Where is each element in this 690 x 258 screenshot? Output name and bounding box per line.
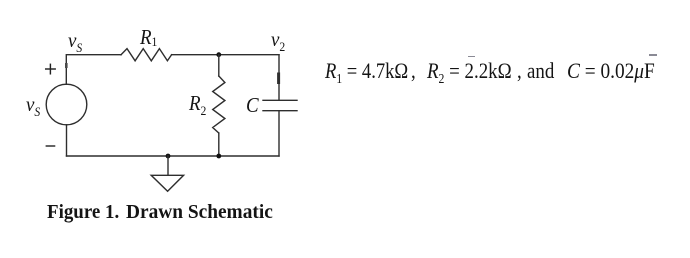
capacitor C plates xyxy=(263,100,297,110)
source vS label (left of circle) xyxy=(26,92,40,117)
scan artifact dash over 2.2 xyxy=(468,56,475,58)
wire: source bottom to bottom rail xyxy=(66,125,68,156)
wire bottom rail xyxy=(67,155,280,157)
resistor R1 xyxy=(121,49,172,61)
resistor R1 label xyxy=(140,25,157,50)
wire: right vertical to capacitor xyxy=(278,55,280,101)
value label C = 0.02 uF xyxy=(567,59,655,83)
node junction dot top xyxy=(216,52,221,57)
polarity tick mark on right wire xyxy=(277,74,280,83)
wire top: R1 to node xyxy=(172,54,219,56)
small ink blob on left wire xyxy=(65,64,68,66)
node vS label (top left) xyxy=(68,28,82,53)
capacitor C label xyxy=(246,93,259,118)
ground xyxy=(151,156,183,191)
voltage source vS circle xyxy=(46,84,87,125)
node v2 label xyxy=(271,27,285,52)
node junction dot ground xyxy=(166,154,171,159)
node junction dot R2 bottom xyxy=(216,154,221,159)
resistor R2 branch wire bottom xyxy=(218,133,220,156)
resistor R2 branch wire top xyxy=(218,55,220,76)
wire top: node to right corner xyxy=(219,54,279,56)
scan artifact dash over F xyxy=(649,54,657,56)
figure caption part 2 xyxy=(126,201,273,224)
resistor R2 label xyxy=(189,91,206,116)
value label R1 = 4.7k ohm xyxy=(325,59,408,83)
word and xyxy=(527,59,554,83)
- polarity label xyxy=(46,145,54,147)
resistor R2 xyxy=(213,76,225,133)
wire: capacitor to bottom rail xyxy=(278,111,280,156)
comma xyxy=(411,59,416,83)
figure caption xyxy=(47,201,119,224)
value label R2 = 2.2k ohm xyxy=(427,59,512,83)
circuit schematic drawing xyxy=(0,0,320,200)
comma xyxy=(517,59,522,83)
+ polarity label xyxy=(46,64,56,74)
wire top: source to R1 xyxy=(66,55,121,85)
